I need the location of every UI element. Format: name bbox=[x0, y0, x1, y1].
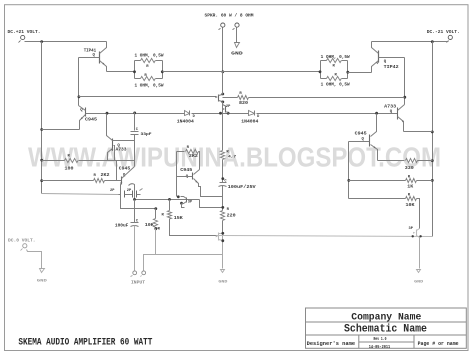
svg-text:33pF: 33pF bbox=[141, 133, 153, 137]
svg-text:820: 820 bbox=[239, 102, 249, 106]
svg-text:DC.+21 VOLT.: DC.+21 VOLT. bbox=[8, 29, 41, 35]
wire input stage tail bbox=[121, 185, 156, 209]
wire right bias to ground (faded) bbox=[419, 238, 421, 269]
svg-text:2K2: 2K2 bbox=[101, 174, 111, 178]
svg-text:1N4004: 1N4004 bbox=[177, 120, 195, 124]
svg-text:220: 220 bbox=[227, 214, 237, 218]
svg-text:1N4004: 1N4004 bbox=[241, 120, 259, 124]
svg-text:4,7: 4,7 bbox=[228, 156, 237, 160]
wire input node line bbox=[135, 199, 200, 201]
svg-text:Rev 1.0: Rev 1.0 bbox=[374, 336, 387, 342]
svg-text:DC.-21 VOLT.: DC.-21 VOLT. bbox=[427, 29, 460, 35]
svg-text:C945: C945 bbox=[85, 118, 98, 122]
capacitor C 100uF/25V bbox=[221, 177, 224, 180]
svg-text:10K: 10K bbox=[145, 224, 155, 228]
svg-text:GND: GND bbox=[231, 53, 243, 57]
wire +21V rail bbox=[25, 41, 107, 43]
wire rail corner to input jumpers bbox=[42, 194, 119, 195]
wire A733 emitter to right rail bbox=[404, 131, 433, 133]
wire output node down to drivers bbox=[222, 72, 224, 95]
svg-text:Page # or name: Page # or name bbox=[418, 341, 459, 347]
wire bias line L1 bbox=[79, 96, 216, 98]
ground GND left bbox=[40, 269, 45, 273]
resistor R 330 bbox=[378, 160, 405, 162]
wire to 220R node bbox=[200, 200, 223, 208]
svg-text:2K2: 2K2 bbox=[189, 155, 199, 159]
capacitor C 100uF (input) bbox=[134, 200, 136, 223]
wire left resistor-pair box bbox=[135, 61, 163, 79]
svg-text:GND: GND bbox=[218, 280, 228, 284]
svg-text:INPUT: INPUT bbox=[131, 281, 146, 285]
wire 15K to lower bias line bbox=[170, 219, 217, 236]
svg-text:3P: 3P bbox=[409, 227, 414, 231]
svg-text:Schematic Name: Schematic Name bbox=[344, 324, 427, 336]
svg-text:C945: C945 bbox=[180, 169, 193, 173]
svg-text:A733: A733 bbox=[384, 105, 397, 109]
svg-text:100uF: 100uF bbox=[115, 224, 129, 228]
wire diode line to A733 base bbox=[257, 113, 398, 115]
svg-text:2P: 2P bbox=[127, 189, 132, 193]
title block box bbox=[306, 308, 467, 348]
wire TIP42 base down bbox=[404, 58, 406, 105]
svg-text:1 OHM, 0,5W: 1 OHM, 0,5W bbox=[321, 83, 350, 88]
svg-text:Company Name: Company Name bbox=[351, 311, 421, 322]
wire between diodes bbox=[192, 113, 249, 115]
diode D 1N4004 (left) bbox=[185, 111, 190, 116]
ground GND right bbox=[417, 270, 421, 273]
transistor 2P (driver upper) bbox=[218, 95, 220, 102]
svg-text:DC.0 VOLT.: DC.0 VOLT. bbox=[8, 238, 36, 244]
wire 0V to ground bbox=[27, 250, 42, 269]
svg-text:1K: 1K bbox=[407, 186, 414, 190]
wire 220 down to output bias bbox=[222, 221, 224, 233]
wire 820 to TIP42 base node bbox=[249, 97, 405, 99]
svg-text:330: 330 bbox=[405, 167, 415, 171]
svg-text:A733: A733 bbox=[116, 149, 128, 153]
resistor R 15K bbox=[169, 200, 171, 211]
wire input node vertical bbox=[129, 184, 135, 200]
svg-text:Designer's name: Designer's name bbox=[307, 341, 356, 347]
ground GND center bbox=[221, 270, 225, 273]
svg-text:2P: 2P bbox=[110, 189, 115, 193]
svg-text:TIP42: TIP42 bbox=[384, 64, 399, 70]
ground GND speaker bbox=[235, 43, 240, 48]
wire TIP41 emitter to parallel resistors bbox=[107, 71, 135, 73]
svg-text:14-05-2011: 14-05-2011 bbox=[369, 344, 391, 350]
svg-text:3P: 3P bbox=[188, 200, 193, 204]
wire diode bias line bbox=[86, 113, 185, 115]
svg-text:10K: 10K bbox=[406, 204, 416, 208]
wire right supply rail bbox=[432, 42, 434, 237]
wire speaker right terminal to ground bbox=[236, 28, 238, 43]
wire left supply rail bbox=[41, 42, 43, 194]
svg-text:TIP41: TIP41 bbox=[84, 47, 97, 53]
wire right resistor-pair box bbox=[321, 61, 348, 79]
wire 2K2 left lead down bbox=[176, 152, 178, 197]
svg-text:C945: C945 bbox=[355, 133, 368, 137]
terminal INPUT bbox=[133, 271, 137, 275]
svg-text:100uF/25V: 100uF/25V bbox=[228, 185, 257, 190]
wire output node line bbox=[163, 71, 321, 73]
wire TIP41 base down to C945 collector bbox=[78, 58, 80, 106]
svg-text:SPKR. 60 W / 8 OHM: SPKR. 60 W / 8 OHM bbox=[205, 14, 254, 19]
diode D 1N4004 (right) bbox=[249, 111, 255, 116]
svg-text:100: 100 bbox=[65, 167, 75, 171]
svg-text:1 OHM, 0,5W: 1 OHM, 0,5W bbox=[135, 84, 164, 89]
wire C945 base down bbox=[348, 142, 350, 199]
svg-text:GND: GND bbox=[37, 280, 48, 284]
wire C945 emitter to left rail bbox=[42, 129, 80, 131]
wire center to ground bbox=[222, 255, 224, 269]
svg-text:GND: GND bbox=[414, 280, 424, 284]
capacitor C 33pF bbox=[134, 113, 136, 131]
wire -21V rail bbox=[372, 41, 449, 43]
wire 33pF to A733 collector node bbox=[113, 140, 135, 142]
transistor output bias (lower, faded) bbox=[218, 233, 220, 241]
svg-text:SKEMA AUDIO AMPLIFIER 60 WATT: SKEMA AUDIO AMPLIFIER 60 WATT bbox=[18, 337, 152, 349]
wire input right terminal to ground line bbox=[144, 255, 223, 271]
svg-text:15K: 15K bbox=[174, 217, 184, 221]
svg-text:1 OHM, 0,5W: 1 OHM, 0,5W bbox=[321, 55, 350, 60]
wire right pair to TIP42 emitter bbox=[348, 72, 372, 74]
svg-text:1 OHM, 0,5W: 1 OHM, 0,5W bbox=[135, 53, 164, 58]
svg-text:2P: 2P bbox=[226, 105, 231, 109]
resistor R 10K (input) bbox=[154, 207, 157, 210]
wire lower bias line (faded) bbox=[217, 236, 433, 237]
wire speaker left terminal to output node bbox=[222, 28, 224, 72]
